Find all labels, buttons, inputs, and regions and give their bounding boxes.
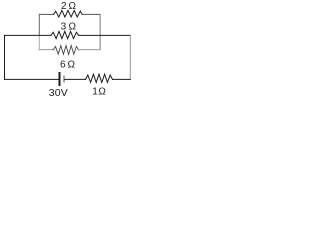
wire bottom left to battery bbox=[5, 78, 59, 80]
wire battery to 1Ω resistor bbox=[65, 78, 86, 80]
battery 30V long plate bbox=[59, 73, 61, 85]
resistor 2Ω bbox=[54, 10, 83, 17]
wire middle branch left (3Ω) bbox=[5, 34, 51, 36]
svg-text:2Ω: 2Ω bbox=[61, 1, 78, 12]
svg-text:6Ω: 6Ω bbox=[60, 59, 77, 70]
wire 1Ω resistor to bottom right corner bbox=[113, 78, 131, 80]
resistor 6Ω bbox=[53, 46, 78, 55]
battery 30V short plate bbox=[63, 76, 65, 82]
resistor 3Ω bbox=[51, 31, 79, 38]
wire middle branch right (3Ω) bbox=[79, 34, 131, 36]
svg-text:30V: 30V bbox=[49, 87, 68, 99]
wire bottom branch right (6Ω) bbox=[79, 49, 101, 51]
wire top branch left (2Ω) bbox=[39, 13, 53, 15]
wire bottom branch left (6Ω) bbox=[39, 49, 53, 51]
svg-text:3Ω: 3Ω bbox=[61, 22, 79, 33]
wire outer right vertical bbox=[129, 35, 131, 79]
wire top branch right (2Ω) bbox=[82, 13, 100, 15]
resistor 1Ω bbox=[86, 74, 113, 82]
node left bus wire bbox=[38, 14, 40, 35]
node right bus wire bbox=[99, 14, 101, 50]
wire outer left vertical bbox=[4, 35, 6, 79]
svg-text:1Ω: 1Ω bbox=[92, 87, 106, 98]
